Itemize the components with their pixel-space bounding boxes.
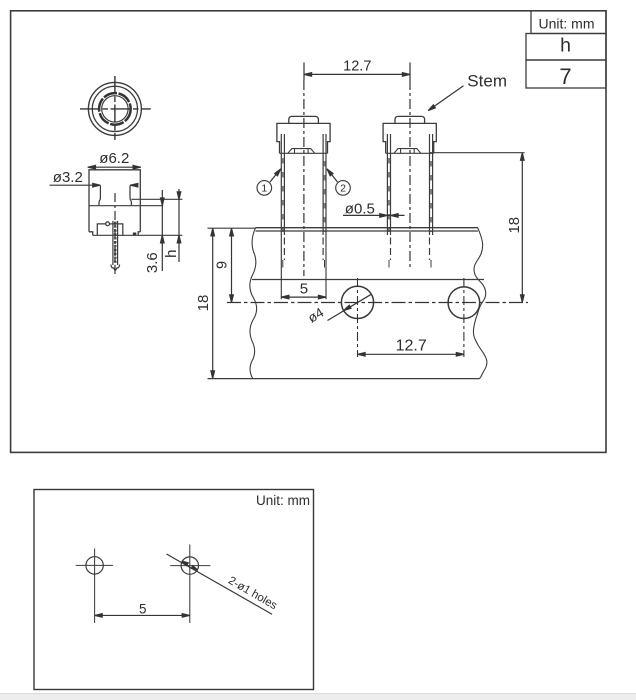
dimension 3.6 line: [161, 190, 165, 271]
dimension leader ø3.2: [50, 183, 138, 187]
hole center line horizontal: [227, 302, 528, 304]
extension line right switch seat: [430, 152, 525, 154]
pcb left hole: [86, 557, 103, 574]
svg-text:3.6: 3.6: [144, 252, 161, 273]
table Unit: mm / h / 7: [526, 11, 606, 88]
callout circle 1: [257, 181, 272, 196]
mounting plate right broken edge: [473, 228, 486, 379]
mounting plate left broken edge: [250, 228, 257, 379]
top view stem ring outer: [99, 93, 131, 125]
dimension 5 front line: [281, 295, 326, 299]
svg-text:5: 5: [139, 601, 147, 616]
dimension 9 line: [230, 228, 234, 302]
top view stem ring inner: [102, 96, 128, 122]
dimension line ø6.2: [88, 165, 141, 169]
svg-text:ø6.2: ø6.2: [99, 150, 129, 167]
top view middle circle: [92, 86, 137, 131]
bottom gray band: [0, 694, 636, 700]
top view center line horizontal: [80, 108, 151, 110]
right switch bottom boss: [394, 149, 421, 154]
left hole center line vertical: [357, 278, 359, 357]
left switch left leg: [281, 134, 284, 268]
dimension 18 right line: [521, 153, 525, 303]
svg-text:Unit: mm: Unit: mm: [539, 15, 595, 31]
dimension 12.7 bottom line: [358, 353, 464, 357]
dimension leader ø0.5: [343, 214, 405, 218]
center line left switch: [303, 80, 305, 276]
svg-text:2: 2: [340, 183, 346, 195]
left switch stem: [289, 116, 319, 123]
pcb right hole: [181, 557, 198, 574]
dimension 18 left line: [211, 228, 215, 378]
right hole: [448, 287, 480, 319]
right switch left leg: [387, 134, 390, 268]
svg-text:h: h: [163, 250, 180, 258]
pcb right hole crosshair: [170, 545, 210, 624]
left switch body: [277, 123, 330, 153]
dimension leader ø4: [328, 294, 372, 320]
svg-text:18: 18: [506, 217, 523, 234]
leader Stem arrow: [428, 86, 463, 111]
left switch seat line: [280, 152, 328, 154]
right hole center line vertical: [463, 278, 465, 357]
side view body mid line + h/3.6 reference line: [89, 205, 163, 207]
top view center line vertical: [114, 76, 116, 140]
main drawing border frame: [11, 11, 606, 453]
left switch bottom boss: [288, 149, 315, 154]
leader callout 2: [327, 169, 338, 182]
right switch right leg: [430, 134, 433, 268]
dimension h line: [177, 189, 181, 262]
extension line top-left (plate top): [208, 227, 257, 229]
mounting plate top edge line 1: [256, 227, 479, 229]
svg-text:12.7: 12.7: [343, 58, 371, 74]
top view outer circle: [88, 82, 141, 135]
leader 2-ø1 holes: [167, 554, 273, 614]
svg-text:7: 7: [559, 64, 571, 89]
svg-text:18: 18: [195, 295, 212, 312]
mounting plate mid line: [252, 279, 484, 281]
svg-text:5: 5: [300, 281, 308, 298]
side view right foot mark: [133, 233, 136, 236]
side view body box: [89, 170, 140, 236]
svg-text:Stem: Stem: [467, 71, 507, 90]
leader callout 1: [270, 169, 281, 182]
mounting plate top edge line 2: [256, 230, 479, 232]
extension line stem top reference: [131, 198, 182, 200]
dimension 5 front: extension lines: [281, 235, 326, 299]
side view stem with flange: [99, 185, 131, 205]
svg-text:Unit: mm: Unit: mm: [256, 493, 310, 508]
right switch body: [383, 123, 436, 153]
side view needle pin: [111, 221, 120, 270]
right switch stem: [395, 116, 425, 123]
leg inner dash marks: [283, 158, 431, 232]
mounting plate bottom edge + extension: [208, 378, 480, 380]
center line right switch: [409, 80, 411, 270]
bottom box frame: [34, 490, 314, 690]
callout circle 2: [336, 181, 351, 196]
pcb left hole crosshair: [76, 549, 113, 624]
left switch right leg: [323, 134, 326, 268]
svg-text:12.7: 12.7: [396, 338, 427, 355]
right switch seat line: [386, 152, 434, 154]
svg-text:9: 9: [215, 261, 231, 269]
left hole: [341, 286, 373, 318]
svg-text:h: h: [560, 35, 571, 57]
side view inner bottom block: [97, 222, 123, 235]
svg-text:ø3.2: ø3.2: [53, 169, 83, 186]
dimension 5 bottom line: [95, 614, 190, 618]
dimension line 12.7 top: [304, 63, 410, 81]
side view center line: [114, 193, 116, 276]
side view bottom line + extension: [93, 234, 183, 236]
svg-text:1: 1: [261, 183, 267, 195]
